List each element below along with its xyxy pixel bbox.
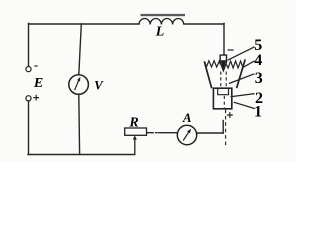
svg-text:4: 4 bbox=[254, 52, 262, 69]
svg-text:R: R bbox=[128, 115, 138, 130]
leader line 1 bbox=[234, 102, 255, 108]
wire left vertical lower bbox=[28, 101, 30, 155]
collector inner notch bbox=[218, 88, 229, 95]
dashed axis below box bbox=[225, 110, 227, 148]
crucible molten fill bbox=[221, 60, 227, 70]
rheostat slider arrow bbox=[134, 138, 136, 155]
wire rheostat to ammeter dash-dot bbox=[148, 132, 178, 134]
funnel right wall bbox=[237, 59, 246, 88]
filament zigzag left bbox=[205, 61, 221, 67]
leader line 4 bbox=[242, 61, 254, 68]
crucible cup bbox=[220, 55, 226, 71]
battery terminal circle plus bbox=[26, 96, 31, 101]
wire right vertical bbox=[223, 23, 225, 55]
filament zigzag right bbox=[226, 60, 245, 68]
leader line 3 bbox=[229, 74, 254, 84]
wire top-left horizontal bbox=[29, 23, 140, 25]
wire voltmeter branch lower bbox=[78, 94, 81, 154]
svg-text:1: 1 bbox=[254, 103, 262, 120]
inductor L coil bbox=[139, 19, 184, 25]
wire top-right horizontal bbox=[184, 23, 224, 25]
svg-text:V: V bbox=[94, 77, 104, 92]
dashed axis in box bbox=[223, 96, 225, 109]
inductor core bar bbox=[141, 14, 186, 16]
voltmeter needle bbox=[75, 81, 79, 90]
svg-text:L: L bbox=[155, 25, 165, 40]
dashed stream right bbox=[225, 72, 227, 89]
battery terminal circle minus bbox=[26, 67, 31, 72]
funnel left wall bbox=[204, 61, 211, 88]
battery minus sign bbox=[34, 65, 37, 67]
device plus sign bbox=[227, 112, 233, 118]
dashed stream left bbox=[220, 72, 222, 89]
ammeter A circle bbox=[177, 125, 196, 144]
wire ammeter to riser bbox=[197, 132, 224, 134]
wire riser to device plus bbox=[222, 121, 224, 134]
ammeter needle bbox=[183, 132, 188, 140]
collector box bbox=[213, 88, 231, 109]
wire bottom-left horizontal bbox=[28, 154, 135, 156]
device minus sign bbox=[228, 49, 234, 51]
leader line 5 bbox=[228, 47, 255, 60]
voltmeter V circle bbox=[69, 75, 89, 95]
svg-text:E: E bbox=[33, 76, 43, 91]
rheostat R box bbox=[125, 128, 147, 135]
leader line 2 bbox=[231, 94, 255, 97]
svg-text:A: A bbox=[182, 110, 192, 125]
battery plus sign bbox=[33, 95, 39, 101]
wire voltmeter branch upper bbox=[79, 24, 82, 75]
svg-text:3: 3 bbox=[255, 70, 263, 87]
wire left vertical upper bbox=[28, 23, 30, 66]
